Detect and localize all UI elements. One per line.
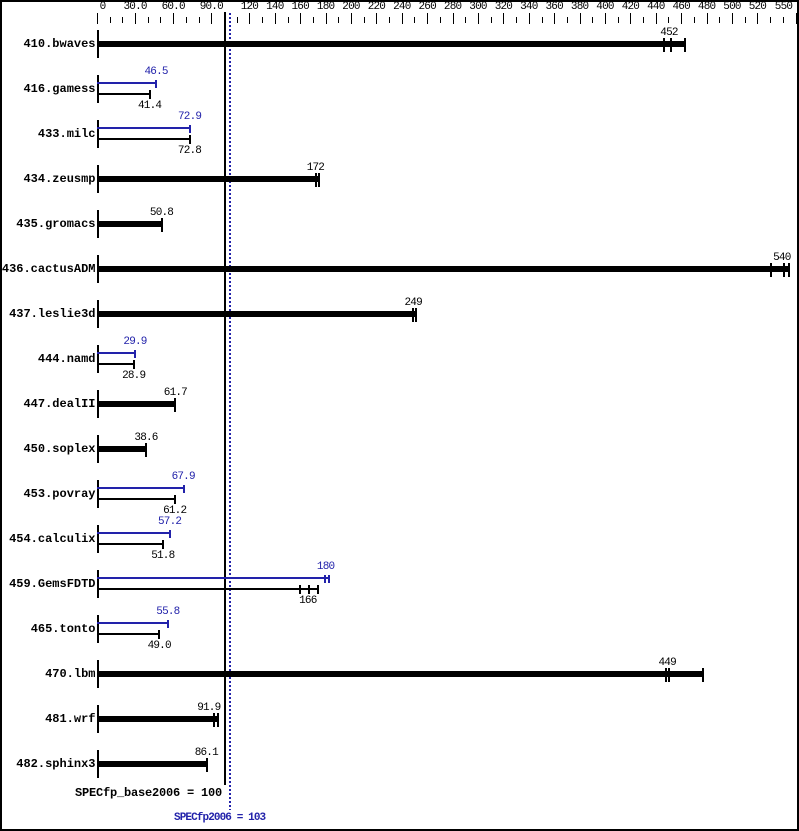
row 459.GemsFDTD: [0, 578, 96, 590]
border frame: [0, 0, 799, 2]
row 410.bwaves: [0, 38, 96, 50]
row 454.calculix: [0, 533, 96, 545]
row 481.wrf: [0, 713, 96, 725]
row 416.gamess: [0, 83, 96, 95]
row 465.tonto: [0, 623, 96, 635]
row 453.povray: [0, 488, 96, 500]
row 436.cactusADM: [0, 263, 96, 275]
x axis ruler: [97, 13, 98, 24]
peak mean dotted line 103: [229, 13, 231, 810]
row 450.soplex: [0, 443, 96, 455]
row 447.dealII: [0, 398, 96, 410]
row 435.gromacs: [0, 218, 96, 230]
row 437.leslie3d: [0, 308, 96, 320]
row 482.sphinx3: [0, 758, 96, 770]
footer peak metric: [174, 812, 265, 824]
base mean line 100: [224, 12, 226, 785]
row 470.lbm: [0, 668, 96, 680]
x axis labels: [83, 2, 123, 13]
row 433.milc: [0, 128, 96, 140]
footer base metric: [75, 787, 222, 799]
row 434.zeusmp: [0, 173, 96, 185]
row 444.namd: [0, 353, 96, 365]
